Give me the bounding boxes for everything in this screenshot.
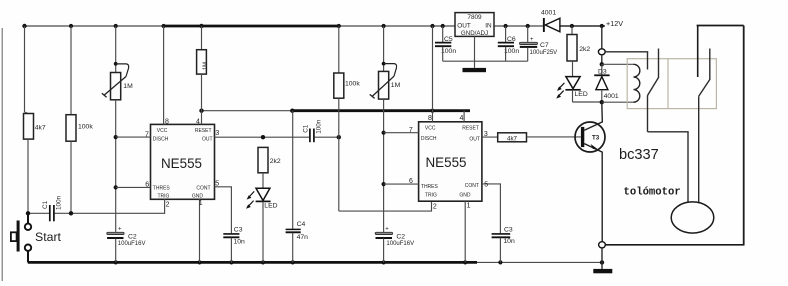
svg-text:100n: 100n (316, 119, 323, 134)
pin 6 U1 wire (116, 181, 151, 188)
wire connector to relay pole 1 (605, 51, 648, 53)
svg-text:LED: LED (264, 202, 277, 209)
wire mid rail thin (202, 110, 293, 112)
svg-text:C3: C3 (504, 226, 513, 233)
wire regulator ground rail (443, 60, 528, 62)
svg-text:DISCH: DISCH (421, 136, 437, 142)
ground (emitter) (593, 262, 612, 273)
svg-text:C6: C6 (507, 36, 516, 43)
trimmer RV1 1M (102, 26, 133, 232)
wire S1 pole to motor (648, 132, 689, 203)
pin 7 U2 wire (384, 127, 419, 134)
svg-text:LED: LED (575, 91, 588, 98)
svg-text:4k7: 4k7 (35, 125, 46, 132)
node DISCH2 junction (382, 131, 386, 135)
pin 6 U2 wire (384, 178, 419, 185)
node bottom bus junctions (114, 260, 605, 264)
svg-text:C5: C5 (444, 36, 453, 43)
pin 5 U2 wire / capacitor C3 10n (second) (482, 182, 515, 263)
node connector circle top (598, 49, 605, 55)
resistor R4 1M (197, 26, 209, 124)
wire diode to +12V (560, 25, 605, 27)
svg-text:7: 7 (145, 131, 149, 138)
svg-text:100uF16V: 100uF16V (118, 241, 146, 247)
wire bottom ground bus thin (477, 261, 602, 263)
svg-text:VCC: VCC (157, 128, 168, 134)
wire +12V down to connector (601, 26, 603, 49)
capacitor C7 100uF25V (520, 26, 558, 61)
op-amp U2 NE555 (419, 122, 482, 201)
svg-text:100uF25V: 100uF25V (530, 50, 558, 56)
svg-text:OUT: OUT (202, 136, 213, 142)
node 100k-C1 junction (69, 211, 73, 215)
svg-text:Start: Start (35, 230, 62, 244)
op-amp U1 NE555 (151, 124, 215, 199)
node button-C1 junction (26, 211, 30, 215)
svg-text:1: 1 (199, 200, 203, 207)
pin 4 U2 wire (459, 111, 464, 122)
svg-text:2: 2 (166, 201, 170, 208)
svg-text:+: + (118, 227, 122, 233)
capacitor C4 47n (286, 111, 309, 263)
svg-text:DISCH: DISCH (153, 137, 169, 143)
resistor R2 100k (66, 26, 93, 213)
svg-text:8: 8 (428, 115, 432, 122)
node mid rail junctions (199, 109, 434, 113)
relay contact S1 (648, 49, 659, 132)
svg-text:+12V: +12V (606, 19, 623, 28)
voltage regulator U3 7809 (455, 13, 494, 68)
svg-text:100n: 100n (504, 48, 519, 55)
LED D2 (right) (556, 77, 588, 102)
svg-text:100k: 100k (345, 81, 360, 88)
svg-text:THRES: THRES (421, 184, 439, 190)
svg-text:+: + (530, 37, 534, 43)
resistor R6 100k (second) (334, 26, 361, 211)
node connector circle bottom (599, 242, 606, 248)
ground (regulator) (463, 68, 487, 72)
pin 3 U2 output wire (482, 131, 498, 138)
wire 7809 input to diode (494, 25, 543, 27)
capacitor C1 100n (left) (42, 195, 62, 221)
svg-text:100uF16V: 100uF16V (386, 241, 414, 247)
svg-text:THRES: THRES (153, 186, 171, 192)
pin 8 U2 wire (428, 26, 432, 122)
pushbutton Start (11, 215, 62, 262)
svg-text:2k2: 2k2 (270, 158, 281, 165)
wire TRIG2 net (339, 201, 432, 211)
svg-text:NE555: NE555 (426, 155, 467, 170)
wire TRIG1 net horizontal (28, 212, 49, 214)
svg-text:C7: C7 (540, 42, 549, 49)
pin 8 U1 (164, 26, 169, 126)
svg-text:TRIG: TRIG (158, 194, 170, 200)
wire emitter below connector to bus (601, 248, 603, 263)
svg-text:4: 4 (459, 115, 463, 122)
svg-text:C1: C1 (302, 124, 309, 133)
svg-text:6: 6 (145, 181, 149, 188)
pin 2 U1 wire (165, 199, 170, 214)
svg-text:RESET: RESET (462, 126, 479, 132)
node DISCH1 junction (114, 135, 118, 139)
node coil top junction (600, 62, 604, 66)
node THRES1 junction (114, 185, 118, 189)
svg-text:100n: 100n (55, 195, 62, 210)
svg-text:4k7: 4k7 (507, 135, 518, 142)
svg-text:3: 3 (215, 130, 219, 137)
svg-text:RESET: RESET (195, 128, 212, 134)
svg-text:1: 1 (467, 203, 471, 210)
svg-text:5: 5 (215, 180, 219, 187)
svg-text:1M: 1M (391, 82, 401, 89)
svg-text:GND: GND (192, 194, 204, 200)
svg-text:2k2: 2k2 (579, 46, 590, 53)
svg-text:10n: 10n (234, 238, 246, 245)
svg-text:CONT: CONT (196, 185, 210, 191)
svg-text:5: 5 (484, 182, 488, 189)
relay K1 coil (634, 64, 640, 102)
svg-text:GND: GND (459, 193, 471, 199)
svg-text:tolómotor: tolómotor (624, 187, 681, 199)
svg-text:C2: C2 (128, 234, 137, 241)
capacitor C2 100uF16V (second) (375, 227, 414, 263)
svg-text:CONT: CONT (465, 183, 479, 189)
svg-text:10n: 10n (503, 238, 515, 245)
wire coil top (602, 63, 634, 65)
svg-text:7809: 7809 (467, 14, 482, 21)
svg-text:1M: 1M (203, 62, 209, 70)
svg-text:C3: C3 (234, 226, 243, 233)
motor M1 (671, 202, 714, 233)
diode D3 4001 flyback (594, 64, 619, 102)
relay contact S2 (699, 49, 710, 204)
svg-text:100k: 100k (78, 124, 93, 131)
wire top +9V rail thick middle (164, 25, 339, 28)
pin 5 U1 wire / capacitor C3 10n (left) (215, 180, 246, 262)
svg-text:OUT: OUT (469, 136, 480, 142)
wire bottom ground bus thick (28, 261, 477, 264)
svg-text:GND/ADJ: GND/ADJ (461, 30, 488, 37)
svg-text:D3: D3 (598, 68, 607, 75)
resistor R1 4k7 (24, 26, 46, 213)
svg-text:1M: 1M (123, 83, 133, 90)
wire LED2 to collector node (573, 101, 602, 103)
pin 1 U1 wire (199, 199, 203, 262)
svg-text:IN: IN (485, 22, 492, 29)
svg-text:+: + (385, 227, 389, 233)
wire bottom-right return (605, 244, 744, 246)
svg-text:4001: 4001 (604, 93, 619, 100)
resistor R5 2k2 (258, 147, 281, 188)
svg-text:T3: T3 (592, 134, 600, 141)
capacitor C6 100n (498, 26, 520, 61)
node top rail junctions (22, 24, 604, 28)
svg-text:100n: 100n (441, 48, 456, 55)
svg-text:8: 8 (165, 119, 169, 126)
wire coil bottom (602, 101, 634, 103)
svg-text:6: 6 (409, 178, 413, 185)
svg-text:47n: 47n (297, 234, 309, 241)
svg-text:C4: C4 (297, 221, 306, 228)
resistor R8 2k2 (right) (567, 26, 590, 77)
diode D4 4001 (541, 10, 560, 32)
wire connector down to coil node (601, 55, 603, 65)
svg-text:3: 3 (484, 131, 488, 138)
svg-text:4001: 4001 (541, 10, 556, 17)
wire mid rail thick (292, 109, 470, 112)
pin 7 U1 wire (116, 131, 151, 138)
svg-text:4: 4 (196, 119, 200, 126)
svg-text:C2: C2 (396, 234, 405, 241)
svg-text:TRIG: TRIG (425, 193, 437, 199)
wire top-right loop (697, 26, 744, 245)
svg-text:NE555: NE555 (161, 156, 202, 171)
capacitor C5 100n (435, 26, 456, 61)
node THRES2 junction (382, 182, 386, 186)
transistor Q1 T3 bc337 (575, 102, 605, 241)
LED D1 (246, 188, 278, 262)
svg-text:2: 2 (433, 203, 437, 210)
svg-text:C1: C1 (42, 200, 49, 209)
pin 1 U2 wire (465, 201, 470, 262)
resistor R7 4k7 (horizontal) (498, 133, 581, 143)
pin 3 U1 output wire (215, 130, 310, 140)
wire top +9V rail thin left (25, 25, 166, 27)
svg-text:OUT: OUT (457, 22, 471, 29)
wire top +9V rail thin right (339, 25, 455, 27)
left border artifact line (1, 28, 3, 281)
svg-text:VCC: VCC (425, 126, 436, 132)
svg-text:7: 7 (409, 127, 413, 134)
svg-text:bc337: bc337 (619, 147, 659, 163)
node collector junction (600, 100, 604, 104)
relay K1 outline (627, 59, 716, 109)
trimmer RV2 1M (second) (370, 26, 401, 232)
capacitor C2 100uF16V (left) (107, 227, 146, 263)
capacitor C1 100n (coupling) (302, 119, 341, 142)
